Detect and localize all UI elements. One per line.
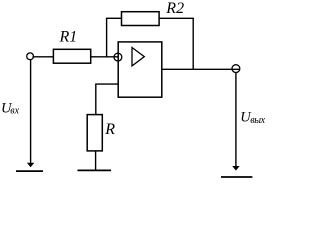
wire output <box>162 68 240 70</box>
wire op-amp second input horizontal <box>95 83 118 85</box>
wire second input down to R <box>95 84 97 115</box>
wire R bottom to ground <box>95 151 97 171</box>
wire input terminal to R1 <box>33 56 54 58</box>
wire to R2 left <box>106 17 122 19</box>
input terminal circle <box>27 53 34 60</box>
resistor R2 <box>122 12 160 26</box>
svg-text:R: R <box>104 121 115 138</box>
resistor R <box>87 115 102 151</box>
svg-text:R2: R2 <box>165 0 184 17</box>
ground left <box>16 170 43 172</box>
arrowhead U_vx <box>27 163 34 168</box>
op-amp U1 body <box>118 42 162 97</box>
wire feedback vertical right (R2 down to output) <box>192 18 194 69</box>
arrowhead U_vyh <box>232 166 239 171</box>
resistor R1 <box>53 49 90 63</box>
op-amp triangle <box>132 48 144 66</box>
wire R2 right <box>159 17 194 19</box>
output terminal circle <box>232 65 240 73</box>
wire feedback vertical left (node up to R2) <box>106 18 108 57</box>
svg-text:вх: вх <box>10 106 19 117</box>
ground under R <box>78 169 112 171</box>
svg-text:вых: вых <box>250 115 265 126</box>
wire R1 to inverting input node <box>91 56 118 58</box>
op-amp input node circle <box>114 53 122 61</box>
ground right <box>221 176 252 178</box>
wire output voltage vertical <box>235 73 237 167</box>
svg-text:R1: R1 <box>59 29 78 46</box>
wire input voltage vertical <box>30 60 32 164</box>
